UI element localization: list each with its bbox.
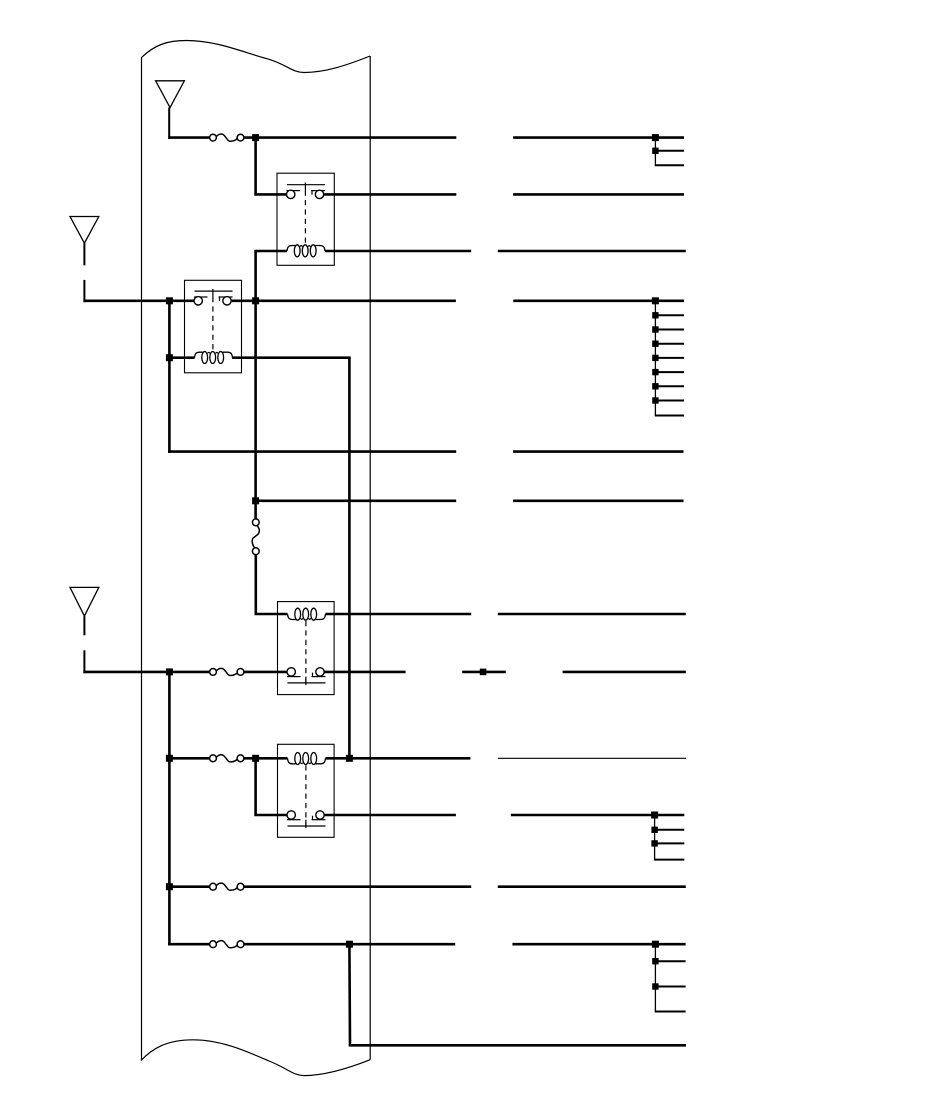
antenna E3 lead lower	[83, 650, 85, 673]
splice S4 tap wire 2	[655, 986, 685, 988]
splice S2 tap wire 5	[655, 371, 684, 373]
fusible link F1	[216, 134, 238, 141]
splice S2 tap wire 8	[655, 415, 684, 417]
wire L5 right segment	[513, 450, 683, 453]
node S2 tap 1	[652, 312, 658, 318]
wire L1 right segment	[513, 136, 684, 139]
wire L9 fuse to relay K4	[244, 757, 288, 760]
relay K3 box	[278, 602, 335, 695]
splice S2 tap wire 3	[655, 343, 684, 345]
node L9/V6 junction	[252, 755, 259, 762]
splice S1 tap wire a	[655, 150, 684, 152]
wire L9 right segment thin	[498, 757, 686, 759]
vertical V1 relay K1 coil feed upper	[254, 301, 257, 519]
relay K4 dashed link	[305, 765, 307, 826]
wire L9 V5 to fuse	[169, 757, 209, 760]
wire L8 fuse to relay K3	[244, 671, 287, 674]
splice S3 tap wire 2	[655, 842, 685, 844]
wire Va dot-L1 to relay K1 switch	[254, 138, 257, 195]
splice S2 tap wire 7	[655, 400, 684, 402]
splice S2 tap wire 2	[655, 329, 684, 331]
splice S2 vertical	[654, 301, 656, 416]
node S1 tap	[652, 148, 658, 154]
wire L4 relay K2 to gap	[232, 299, 456, 302]
splice S3 tap wire 1	[655, 829, 685, 831]
node S2 tap 7	[652, 397, 658, 403]
wire L8 middle stub	[462, 671, 506, 674]
antenna E3	[70, 587, 99, 616]
fusible link F6	[216, 941, 238, 948]
node splice S3 junction	[651, 812, 658, 819]
fusible link F4	[216, 755, 238, 762]
antenna E1	[156, 81, 185, 108]
panel left edge	[141, 58, 143, 1061]
relay K4 coil	[288, 758, 296, 764]
wire L12 fuse to gap	[244, 943, 455, 946]
node splice S2 junction	[652, 297, 659, 304]
node S2 tap 3	[652, 341, 658, 347]
wire L6 left segment	[256, 499, 457, 502]
node L12/V4 junction	[346, 941, 353, 948]
antenna E1 lead	[168, 108, 170, 140]
antenna E2 lead upper	[83, 243, 85, 265]
fusible link F3	[216, 668, 238, 675]
relay K3 dashed link	[305, 621, 307, 683]
node V1/L6 junction	[252, 497, 259, 504]
wire L13 bottom segment	[349, 1044, 686, 1047]
wire L7 right segment	[498, 613, 686, 616]
wire L7 V1 corner to coil	[255, 613, 288, 616]
relay K2 dashed link	[212, 297, 214, 351]
wire L4 right segment	[513, 299, 684, 302]
wire L4 antenna to relay K2	[83, 299, 193, 302]
relay K3 switch	[288, 682, 326, 684]
fusible link F5	[216, 883, 238, 890]
fusible link F2 vertical	[252, 526, 259, 549]
wire L12 V5 corner to fuse	[168, 943, 210, 946]
node S2 tap 2	[652, 326, 658, 332]
node L1/Va junction	[252, 134, 259, 141]
wire relay K2 coil left	[169, 356, 194, 359]
relay K1 dashed link	[304, 191, 306, 244]
wire L5 left segment	[168, 450, 456, 453]
vertical V4 bottom feed	[348, 944, 351, 1045]
relay K1 switch	[287, 184, 325, 186]
splice S3 tap wire 3	[654, 859, 684, 861]
wire L9 coil to gap	[326, 757, 471, 760]
relay K1 box	[277, 173, 334, 265]
splice S3 vertical	[654, 815, 656, 860]
node splice S1 junction	[652, 134, 659, 141]
vertical V2 antenna2 bus	[168, 301, 171, 453]
wire L2 relay K1 to gap	[324, 193, 456, 196]
wire L7 coil to gap	[326, 613, 472, 616]
node S4 tap 1	[652, 958, 658, 964]
relay K2 coil	[195, 352, 203, 358]
wire L11 right segment	[498, 885, 686, 888]
panel right edge	[369, 56, 371, 1060]
relay K1 coil	[287, 246, 295, 252]
node S2 tap 6	[652, 383, 658, 389]
node S2 tap 5	[652, 369, 658, 375]
relay K4 switch	[288, 825, 326, 827]
wire L8 right segment	[563, 671, 686, 674]
wire L10 relay K4 to gap	[324, 814, 456, 817]
node V2/relay K2 coil junction	[166, 354, 173, 361]
node V5/L11 junction	[166, 883, 173, 890]
node S2 tap 4	[652, 355, 658, 361]
relay K2 switch	[195, 290, 233, 292]
relay K4 box	[278, 744, 335, 837]
node S3 tap 1	[651, 827, 657, 833]
wire L1 fuse to gap	[244, 136, 456, 139]
node S4 tap 2	[652, 983, 658, 989]
splice S4 tap wire 1	[655, 960, 685, 962]
splice S4 vertical	[654, 944, 656, 1011]
node L4/V1 junction	[252, 297, 259, 304]
wire L8 antenna to fuse	[83, 671, 209, 674]
wire L11 fuse to gap	[244, 885, 471, 888]
panel top tear curve	[142, 41, 371, 73]
wire L12 right segment	[512, 943, 685, 946]
wire L3 right segment	[498, 250, 686, 253]
node L8/V5 junction	[166, 668, 173, 675]
node S3 tap 2	[651, 840, 657, 846]
vertical V6 relay K4 switch feed	[254, 758, 257, 815]
wire L3 coil to gap	[325, 250, 471, 253]
splice S2 tap wire 4	[655, 357, 684, 359]
wire L2 right segment	[513, 193, 684, 196]
antenna E2	[70, 217, 99, 244]
splice S2 tap wire 1	[655, 314, 684, 316]
relay K3 coil	[288, 614, 296, 620]
splice S2 tap wire 6	[655, 385, 684, 387]
wire L10 right segment	[511, 814, 684, 817]
node L9/V3 junction	[346, 755, 353, 762]
splice S1 vertical	[654, 138, 656, 166]
vertical V1 lower to relay K3 coil	[255, 555, 258, 614]
splice S1 tap wire b	[655, 164, 684, 166]
antenna E3 lead upper	[83, 616, 85, 635]
node L4/V2 junction	[166, 297, 173, 304]
wire L10 V6 to relay K4	[254, 814, 287, 817]
node L8 stub junction	[480, 669, 487, 676]
vertical V3 relay K2 coil feed	[348, 358, 351, 759]
wire L8 relay K3 to end	[324, 671, 405, 674]
node V5/L9 junction	[166, 755, 173, 762]
antenna E2 lead lower	[83, 280, 85, 302]
wire L3 corner to coil	[254, 250, 287, 253]
relay K2 box	[185, 280, 242, 373]
wire L6 right segment	[513, 499, 683, 502]
wire L11 V5 to fuse	[169, 885, 209, 888]
wire relay K2 coil right to V3	[232, 356, 351, 359]
wire L1 antenna to fuse	[168, 136, 209, 139]
panel bottom tear curve	[141, 1040, 370, 1076]
node splice S4 junction	[652, 941, 659, 948]
vertical V5 antenna3 bus	[168, 672, 171, 946]
splice S4 tap wire 3	[655, 1011, 686, 1013]
